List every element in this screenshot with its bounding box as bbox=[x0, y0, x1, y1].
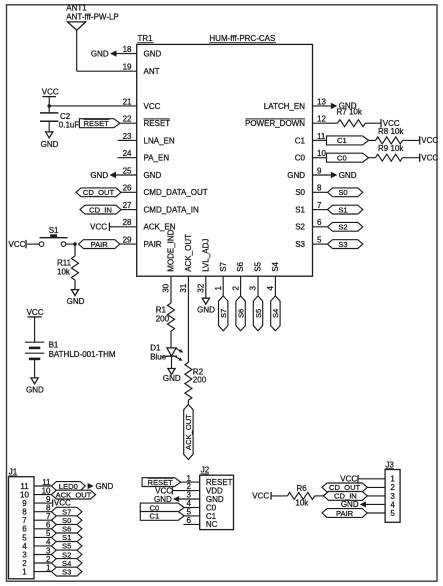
net tag S3 pin5 bbox=[328, 240, 363, 249]
net tag CD_OUT pin26 bbox=[76, 188, 121, 197]
svg-text:S2: S2 bbox=[338, 223, 347, 232]
wire J3 pin3 bbox=[367, 495, 385, 497]
wire J1 pin9 bbox=[34, 495, 52, 504]
wire B1 to GND bbox=[34, 359, 36, 378]
svg-text:R6: R6 bbox=[297, 484, 308, 493]
svg-text:26: 26 bbox=[123, 184, 132, 193]
wire J1 pin6 bbox=[34, 521, 52, 530]
wire antenna to pin19 bbox=[77, 30, 137, 71]
ground below C2 bbox=[41, 132, 59, 149]
J3 pin numbers inside bbox=[390, 475, 395, 518]
connector J3 body bbox=[385, 470, 400, 523]
net tag RESET pin22 bbox=[79, 119, 119, 128]
value HUM-fff-PRC-CAS bbox=[209, 34, 276, 43]
ground GND J3 pin4 arrow bbox=[341, 500, 366, 509]
wire S1 to junction bbox=[66, 243, 75, 245]
wire J1 pin3 bbox=[34, 546, 52, 555]
svg-text:4: 4 bbox=[266, 286, 275, 291]
wire J2 pin4 bbox=[184, 507, 200, 509]
switch S1 pushbutton bbox=[39, 226, 67, 246]
wire R2 to ACK_OUT tag bbox=[187, 400, 189, 404]
svg-text:S3: S3 bbox=[62, 567, 71, 576]
wire stub J2 pin6 NC bbox=[184, 523, 200, 525]
ground GND pin25 arrow bbox=[90, 171, 116, 180]
resistor R7 10k bbox=[337, 108, 366, 127]
svg-text:PAIR: PAIR bbox=[336, 509, 354, 518]
wire CD_IN to pin27 bbox=[121, 209, 137, 211]
net tag S1 pin7 bbox=[328, 205, 363, 214]
svg-text:J3: J3 bbox=[385, 461, 394, 470]
svg-text:GND: GND bbox=[197, 305, 215, 314]
junction VCC C2 pin21 bbox=[47, 104, 51, 108]
wire pin8 bbox=[313, 191, 328, 193]
svg-text:ANT: ANT bbox=[144, 67, 160, 76]
J1 pin numbers inside bbox=[20, 482, 29, 577]
wire pin31 to R2 bbox=[187, 276, 189, 362]
svg-text:CD_OUT: CD_OUT bbox=[83, 188, 115, 197]
power VCC J1 pin9 bbox=[53, 499, 71, 508]
net tag S4 vertical bbox=[271, 296, 281, 331]
svg-text:S1: S1 bbox=[295, 206, 305, 215]
svg-text:C0: C0 bbox=[337, 154, 347, 163]
svg-text:R11: R11 bbox=[57, 258, 72, 267]
svg-text:GND: GND bbox=[287, 171, 305, 180]
wire J1 pin5 bbox=[34, 529, 52, 538]
svg-text:RESET: RESET bbox=[84, 119, 110, 128]
op IC TR1 HUM-fff-PRC-CAS body bbox=[137, 44, 313, 276]
net tag S2 pin6 bbox=[328, 222, 363, 231]
net tag C0 J2 pin4 bbox=[140, 503, 184, 512]
net tag C1 J2 pin5 bbox=[140, 512, 184, 521]
capacitor C2 0.1uF bbox=[40, 106, 79, 132]
net tag S0 J1 pin7 bbox=[51, 516, 82, 525]
net tag S7 vertical bbox=[219, 296, 229, 331]
power VCC at R6 bbox=[252, 492, 271, 501]
svg-text:GND: GND bbox=[41, 140, 59, 149]
power VCC after R8 bbox=[420, 136, 439, 145]
svg-text:12: 12 bbox=[317, 115, 326, 124]
svg-text:S6: S6 bbox=[236, 309, 245, 318]
resistor R9 10k bbox=[376, 144, 405, 161]
svg-text:S7: S7 bbox=[219, 261, 228, 271]
wire pin2 bbox=[240, 276, 242, 296]
ground GND pin18 arrow bbox=[91, 49, 117, 58]
ground GND after LED0 arrow bbox=[88, 482, 114, 491]
svg-text:NC: NC bbox=[206, 520, 218, 529]
svg-text:PAIR: PAIR bbox=[144, 240, 162, 249]
svg-text:200: 200 bbox=[193, 376, 207, 385]
svg-text:R9 10k: R9 10k bbox=[378, 144, 404, 153]
svg-text:S3: S3 bbox=[295, 240, 305, 249]
net tag S4 J1 pin2 bbox=[51, 559, 82, 568]
wire pin4 bbox=[274, 276, 276, 296]
svg-text:VCC: VCC bbox=[27, 308, 44, 317]
svg-text:C0: C0 bbox=[295, 154, 306, 163]
net tag S3 J1 pin1 bbox=[51, 567, 82, 576]
svg-text:VCC: VCC bbox=[90, 222, 107, 231]
svg-text:21: 21 bbox=[123, 97, 132, 106]
IC left pin numbers bbox=[123, 45, 132, 245]
svg-text:TR1: TR1 bbox=[138, 34, 154, 43]
svg-text:30: 30 bbox=[162, 283, 171, 292]
wire pin12 to R7 bbox=[313, 122, 338, 124]
svg-text:S7: S7 bbox=[219, 309, 228, 318]
svg-text:HUM-fff-PRC-CAS: HUM-fff-PRC-CAS bbox=[209, 34, 275, 43]
net tag ACK_OUT vertical bbox=[184, 405, 194, 460]
wire pin18 bbox=[117, 53, 137, 55]
svg-text:GND: GND bbox=[91, 49, 109, 58]
wire VCC to S1 bbox=[26, 243, 39, 245]
net tag S7 J1 pin8 bbox=[51, 507, 82, 516]
power VCC J2 pin2 bbox=[155, 486, 172, 495]
power VCC J3 pin1 bbox=[340, 475, 358, 484]
svg-text:0.1uF: 0.1uF bbox=[59, 121, 80, 130]
svg-text:C1: C1 bbox=[337, 136, 347, 145]
svg-text:S6: S6 bbox=[236, 261, 245, 271]
svg-text:31: 31 bbox=[179, 283, 188, 292]
net tag S5 J1 pin4 bbox=[51, 542, 82, 551]
wire pin1 bbox=[222, 276, 224, 296]
svg-text:CMD_DATA_IN: CMD_DATA_IN bbox=[144, 206, 199, 215]
svg-text:8: 8 bbox=[317, 184, 322, 193]
svg-text:S5: S5 bbox=[254, 261, 263, 271]
svg-text:GND: GND bbox=[67, 297, 85, 306]
power VCC at B1 bbox=[27, 308, 44, 342]
IC right pin names bbox=[245, 102, 306, 249]
net tag S6 J1 pin6 bbox=[51, 524, 82, 533]
svg-text:27: 27 bbox=[123, 201, 132, 210]
svg-text:6: 6 bbox=[317, 218, 322, 227]
wire J2 pin1 bbox=[181, 481, 200, 483]
svg-text:19: 19 bbox=[123, 63, 132, 72]
wire VCC to pin28 bbox=[109, 226, 136, 228]
wire pin7 bbox=[313, 209, 328, 211]
svg-text:2: 2 bbox=[231, 286, 240, 291]
svg-text:PAIR: PAIR bbox=[91, 240, 109, 249]
svg-text:CMD_DATA_OUT: CMD_DATA_OUT bbox=[144, 188, 208, 197]
svg-text:VCC: VCC bbox=[54, 499, 71, 508]
IC bottom pin names rotated bbox=[167, 229, 280, 271]
svg-text:ANT1: ANT1 bbox=[66, 3, 87, 12]
wire pin25 bbox=[116, 174, 137, 176]
svg-text:B1: B1 bbox=[49, 340, 59, 349]
antenna ANT1 ANT-fff-PW-LP bbox=[66, 3, 118, 30]
wire J1 pin7 bbox=[34, 512, 52, 521]
svg-text:24: 24 bbox=[123, 149, 132, 158]
wire R8 to VCC bbox=[403, 139, 420, 141]
wire C1 tag to R8 bbox=[369, 139, 376, 141]
ground GND pin9 arrow bbox=[331, 171, 357, 180]
svg-text:VCC: VCC bbox=[252, 492, 269, 501]
svg-text:VCC: VCC bbox=[144, 102, 161, 111]
wire RESET tag to pin22 bbox=[120, 122, 137, 124]
svg-text:CD_IN: CD_IN bbox=[89, 205, 112, 214]
svg-text:S4: S4 bbox=[271, 309, 280, 318]
connector J1 body bbox=[9, 477, 35, 579]
J2 pin names inside bbox=[206, 478, 233, 529]
svg-text:R1: R1 bbox=[156, 306, 167, 315]
IC right pin numbers bbox=[317, 97, 326, 244]
svg-text:S2: S2 bbox=[295, 223, 305, 232]
ground GND pin13 arrow bbox=[331, 102, 357, 111]
wire J1 pin8 bbox=[34, 504, 52, 513]
svg-text:1: 1 bbox=[46, 563, 51, 572]
svg-text:R8 10k: R8 10k bbox=[378, 127, 404, 136]
net tag CD_OUT J3 pin2 bbox=[322, 483, 367, 492]
svg-text:VCC: VCC bbox=[421, 154, 438, 163]
ground below D1 bbox=[163, 369, 181, 384]
battery B1 BATHLD-001-THM bbox=[25, 340, 116, 359]
svg-text:GND: GND bbox=[26, 385, 44, 394]
svg-text:10: 10 bbox=[317, 149, 326, 158]
power VCC pin28 bbox=[90, 222, 109, 231]
net tag CD_IN pin27 bbox=[80, 205, 121, 214]
svg-text:10k: 10k bbox=[295, 499, 309, 508]
wire J2 pin2 bbox=[172, 490, 199, 492]
wire pin30 to R1 bbox=[170, 276, 172, 303]
svg-text:RESET: RESET bbox=[144, 119, 171, 128]
svg-text:28: 28 bbox=[123, 218, 132, 227]
wire J1 pin1 bbox=[34, 563, 52, 572]
svg-text:5: 5 bbox=[390, 509, 395, 518]
svg-text:S0: S0 bbox=[338, 188, 347, 197]
svg-text:VCC: VCC bbox=[42, 88, 59, 97]
svg-text:200: 200 bbox=[156, 315, 170, 324]
svg-text:GND: GND bbox=[144, 171, 162, 180]
net tag C0 pin10 bbox=[327, 153, 369, 162]
net tag S0 pin8 bbox=[328, 188, 363, 197]
wire J3 pin4 bbox=[366, 503, 385, 505]
svg-text:25: 25 bbox=[123, 166, 132, 175]
net tag S6 vertical bbox=[236, 296, 246, 331]
svg-text:29: 29 bbox=[123, 236, 132, 245]
svg-text:S3: S3 bbox=[338, 240, 347, 249]
wire VCC to pin21 bbox=[49, 105, 137, 107]
refdes J1 bbox=[9, 468, 18, 477]
svg-text:3: 3 bbox=[249, 286, 258, 291]
svg-text:PA_EN: PA_EN bbox=[144, 154, 170, 163]
wire J1 pin11 bbox=[34, 478, 52, 487]
svg-text:VCC: VCC bbox=[421, 136, 438, 145]
svg-text:13: 13 bbox=[317, 97, 326, 106]
svg-text:ANT-fff-PW-LP: ANT-fff-PW-LP bbox=[66, 13, 118, 22]
ground below R11 bbox=[67, 290, 85, 306]
svg-text:R7 10k: R7 10k bbox=[337, 108, 363, 117]
net tag S5 vertical bbox=[253, 296, 262, 331]
wire PAIR to pin29 bbox=[120, 243, 137, 245]
resistor R6 10k bbox=[287, 484, 314, 508]
wire pin10 bbox=[313, 157, 327, 159]
resistor R11 10k bbox=[57, 244, 79, 290]
net tag LED0 J1 pin11 bbox=[51, 482, 85, 491]
wire C0 tag to R9 bbox=[369, 157, 376, 159]
LED D1 Blue bbox=[150, 343, 183, 361]
wire R9 to VCC bbox=[403, 157, 420, 159]
wire pin5 bbox=[313, 243, 328, 245]
svg-text:GND: GND bbox=[163, 374, 181, 383]
wire stub pin23 bbox=[118, 139, 137, 141]
wire J3 pin5 bbox=[367, 512, 385, 514]
net tag C1 pin11 bbox=[327, 136, 369, 145]
wire R6 to CD_IN tag bbox=[315, 495, 324, 497]
wire pin11 bbox=[313, 139, 327, 141]
wire pin13 bbox=[313, 105, 331, 107]
IC bottom pin numbers rotated bbox=[162, 283, 275, 292]
net tag S1 J1 pin5 bbox=[51, 533, 82, 542]
svg-text:18: 18 bbox=[123, 45, 132, 54]
svg-text:C2: C2 bbox=[60, 112, 71, 121]
ground GND J2 pin3 arrow bbox=[154, 495, 179, 504]
svg-text:LVL_ADJ: LVL_ADJ bbox=[201, 239, 210, 272]
wire J3 pin1 bbox=[358, 478, 385, 480]
J2 pin numbers bbox=[187, 474, 192, 525]
svg-text:23: 23 bbox=[123, 132, 132, 141]
svg-text:6: 6 bbox=[187, 516, 192, 525]
ground below B1 bbox=[26, 378, 44, 394]
net tag ACK_OUT J1 pin10 bbox=[51, 490, 95, 499]
svg-text:ACK_OUT: ACK_OUT bbox=[184, 234, 193, 272]
svg-text:9: 9 bbox=[317, 166, 322, 175]
refdes J3 bbox=[385, 461, 394, 470]
svg-text:ACK_OUT: ACK_OUT bbox=[184, 414, 193, 450]
wire J1 pin4 bbox=[34, 538, 52, 547]
svg-text:GND: GND bbox=[90, 171, 108, 180]
wire CD_OUT to pin26 bbox=[121, 191, 137, 193]
connector J2 body bbox=[200, 475, 234, 529]
svg-text:J2: J2 bbox=[201, 466, 210, 475]
net tag CD_IN J3 pin3 bbox=[324, 492, 368, 501]
net tag RESET J2 pin1 bbox=[142, 478, 181, 487]
resistor R2 200 bbox=[185, 362, 207, 400]
wire R1 to D1 bbox=[170, 331, 172, 348]
wire pin9 bbox=[313, 174, 331, 176]
wire J1 pin2 bbox=[34, 555, 52, 564]
power VCC top bbox=[42, 88, 59, 106]
svg-text:GND: GND bbox=[96, 482, 114, 491]
resistor R8 10k bbox=[376, 127, 405, 144]
svg-text:GND: GND bbox=[144, 50, 162, 59]
power VCC after R9 bbox=[420, 154, 439, 163]
svg-text:32: 32 bbox=[197, 283, 206, 292]
net tag S2 J1 pin3 bbox=[51, 550, 82, 559]
svg-text:S1: S1 bbox=[338, 205, 347, 214]
svg-text:MODE_IND: MODE_IND bbox=[167, 229, 176, 271]
wire pin32 bbox=[205, 276, 207, 298]
svg-text:LATCH_EN: LATCH_EN bbox=[264, 102, 305, 111]
svg-text:C1: C1 bbox=[150, 512, 160, 521]
svg-text:D1: D1 bbox=[150, 343, 161, 352]
power VCC at S1 bbox=[9, 240, 26, 249]
svg-text:POWER_DOWN: POWER_DOWN bbox=[245, 119, 305, 128]
wire J1 pin10 bbox=[34, 486, 52, 495]
svg-text:BATHLD-001-THM: BATHLD-001-THM bbox=[49, 350, 116, 359]
svg-text:11: 11 bbox=[317, 132, 326, 141]
svg-text:C1: C1 bbox=[295, 136, 306, 145]
wire D1 to GND bbox=[171, 356, 173, 368]
wire J2 pin5 bbox=[184, 515, 200, 517]
wire pin6 bbox=[313, 226, 328, 228]
IC left pin names bbox=[144, 50, 208, 250]
svg-text:22: 22 bbox=[123, 115, 132, 124]
refdes J2 bbox=[201, 466, 210, 475]
wire J2 pin3 bbox=[179, 498, 200, 500]
svg-text:1: 1 bbox=[22, 568, 27, 577]
net tag PAIR J3 pin5 bbox=[322, 509, 367, 518]
svg-text:7: 7 bbox=[317, 201, 322, 210]
refdes TR1 bbox=[137, 34, 153, 43]
wire stub pin24 bbox=[118, 157, 137, 159]
power VCC after R7 bbox=[381, 119, 400, 128]
svg-text:S0: S0 bbox=[295, 188, 305, 197]
svg-text:GND: GND bbox=[339, 171, 357, 180]
svg-text:S5: S5 bbox=[254, 309, 263, 318]
svg-text:10k: 10k bbox=[57, 267, 71, 276]
svg-text:5: 5 bbox=[317, 236, 322, 245]
wire pin3 bbox=[257, 276, 259, 296]
svg-text:S1: S1 bbox=[49, 226, 59, 235]
svg-text:VCC: VCC bbox=[9, 240, 26, 249]
junction S1 R11 PAIR bbox=[73, 242, 77, 246]
ground below pin32 bbox=[197, 298, 215, 314]
svg-text:S4: S4 bbox=[271, 261, 280, 271]
svg-text:LNA_EN: LNA_EN bbox=[144, 136, 175, 145]
wire VCC to R6 bbox=[271, 495, 287, 497]
svg-text:J1: J1 bbox=[9, 468, 18, 477]
wire J3 pin2 bbox=[367, 486, 385, 488]
resistor R1 200 bbox=[156, 303, 175, 331]
svg-text:1: 1 bbox=[214, 286, 223, 291]
net tag PAIR pin29 bbox=[79, 240, 120, 249]
wire R7 to VCC bbox=[365, 122, 381, 124]
